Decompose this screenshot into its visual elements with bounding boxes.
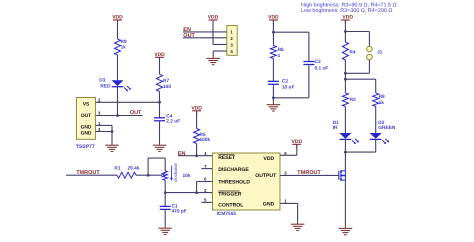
svg-text:R4: R4 <box>349 50 355 56</box>
svg-text:RED: RED <box>100 84 111 90</box>
svg-text:OUT: OUT <box>130 110 142 116</box>
svg-text:VDD: VDD <box>342 15 353 21</box>
svg-text:VDD: VDD <box>191 105 202 111</box>
svg-text:IR: IR <box>333 125 338 131</box>
svg-text:R7: R7 <box>163 78 169 84</box>
svg-text:C2: C2 <box>282 79 288 85</box>
svg-text:Low brightness: R3=300 Ω, R4=2: Low brightness: R3=300 Ω, R4=200 Ω <box>301 8 392 14</box>
svg-text:OUT: OUT <box>81 113 91 119</box>
svg-text:2.2 uF: 2.2 uF <box>166 118 180 124</box>
svg-text:R3: R3 <box>350 97 356 103</box>
svg-text:R5: R5 <box>200 132 206 138</box>
svg-text:VDD: VDD <box>263 156 274 162</box>
svg-text:GREEN: GREEN <box>378 125 396 131</box>
svg-text:100: 100 <box>163 84 171 90</box>
svg-text:0.1 uF: 0.1 uF <box>315 65 329 71</box>
svg-text:ICM7555: ICM7555 <box>217 211 237 217</box>
svg-text:CONTROL: CONTROL <box>218 203 243 209</box>
svg-text:C3: C3 <box>315 59 321 65</box>
svg-text:1k: 1k <box>121 44 127 50</box>
svg-text:10k: 10k <box>183 173 191 179</box>
svg-text:10 uF: 10 uF <box>282 85 295 91</box>
svg-text:VDD: VDD <box>112 15 123 21</box>
svg-text:GND: GND <box>263 201 275 207</box>
svg-text:OUTPUT: OUTPUT <box>255 173 277 179</box>
svg-text:100k: 100k <box>200 137 211 143</box>
svg-text:GND: GND <box>81 125 92 131</box>
svg-text:TRIGGER: TRIGGER <box>218 192 242 198</box>
svg-text:clockwise: clockwise <box>173 162 178 182</box>
svg-text:R9: R9 <box>121 39 127 45</box>
svg-text:VDD: VDD <box>292 139 303 145</box>
svg-text:TMROUT: TMROUT <box>297 170 321 176</box>
svg-text:VDD: VDD <box>154 52 165 58</box>
svg-text:J1: J1 <box>377 49 383 55</box>
svg-text:TSSP77: TSSP77 <box>76 144 95 150</box>
svg-text:RESET: RESET <box>218 155 236 161</box>
svg-text:1k: 1k <box>379 100 385 106</box>
svg-text:VS: VS <box>83 101 90 107</box>
svg-text:R8: R8 <box>379 94 385 100</box>
svg-text:DISCHARGE: DISCHARGE <box>218 167 249 173</box>
svg-text:1: 1 <box>278 53 281 59</box>
svg-text:R1: R1 <box>114 166 120 172</box>
svg-text:GND: GND <box>81 131 92 137</box>
svg-text:THRESHOLD: THRESHOLD <box>218 180 250 186</box>
svg-text:29.4k: 29.4k <box>128 166 140 172</box>
svg-text:VDD: VDD <box>208 15 219 21</box>
svg-text:R6: R6 <box>278 47 284 53</box>
svg-text:470 pF: 470 pF <box>172 208 187 214</box>
svg-text:D3: D3 <box>99 77 105 83</box>
svg-text:VDD: VDD <box>268 15 279 21</box>
